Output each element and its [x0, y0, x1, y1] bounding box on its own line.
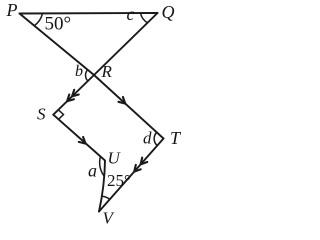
svg-text:50°: 50°	[45, 14, 72, 35]
svg-text:25°: 25°	[107, 171, 131, 190]
svg-text:d: d	[143, 129, 152, 148]
svg-text:R: R	[101, 62, 113, 81]
svg-text:S: S	[37, 105, 46, 124]
svg-text:b: b	[75, 63, 83, 80]
svg-text:c: c	[127, 4, 135, 24]
svg-text:P: P	[6, 0, 18, 20]
svg-text:Q: Q	[162, 2, 175, 22]
svg-text:a: a	[88, 161, 97, 181]
svg-text:U: U	[108, 149, 122, 168]
